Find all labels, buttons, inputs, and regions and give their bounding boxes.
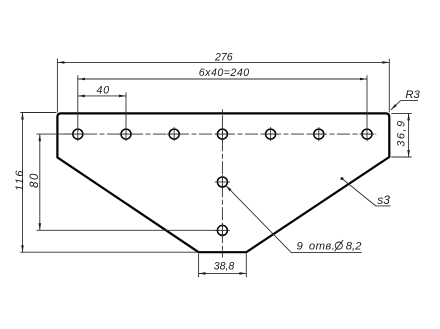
dimension lines <box>23 62 409 273</box>
leader: R3 <box>391 101 418 110</box>
svg-text:40: 40 <box>97 85 110 97</box>
hole H1 <box>73 129 372 235</box>
svg-text:9: 9 <box>297 240 304 252</box>
svg-text:8,2: 8,2 <box>346 240 362 252</box>
arrows <box>21 61 410 275</box>
svg-text:36,9: 36,9 <box>395 119 407 146</box>
svg-text:276: 276 <box>214 51 233 63</box>
leader: s3 <box>341 177 344 180</box>
svg-text:38,8: 38,8 <box>214 261 235 273</box>
extension lines <box>20 59 412 278</box>
vertical part centerline <box>221 109 223 257</box>
svg-text:80: 80 <box>29 172 41 188</box>
svg-text:отв.: отв. <box>309 240 335 252</box>
svg-text:116: 116 <box>14 169 26 191</box>
plate outline <box>57 113 389 252</box>
horizontal hole-row centerline <box>64 133 376 135</box>
callout diameter symbol <box>335 240 344 251</box>
svg-text:R3: R3 <box>405 89 420 101</box>
hole cross ticks <box>70 127 374 237</box>
svg-text:6x40=240: 6x40=240 <box>199 67 250 79</box>
svg-text:s3: s3 <box>377 193 390 207</box>
leader: hole callout <box>226 185 362 252</box>
